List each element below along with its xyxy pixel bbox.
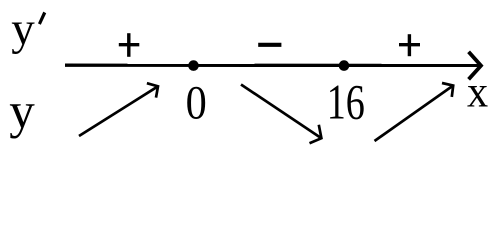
axis arrowhead (right end of x-axis) [469, 52, 481, 80]
decreasing arrow (middle interval, y falling) [241, 85, 321, 144]
axis line (x-axis / number line) [65, 64, 479, 68]
plus sign (left interval) [119, 33, 140, 57]
svg-text:x: x [467, 68, 488, 117]
svg-text:y: y [11, 3, 35, 55]
label 0 (below left dot) [186, 76, 207, 129]
svg-text:16: 16 [327, 75, 365, 130]
plus sign (right interval) [399, 34, 420, 56]
label y' (top left) [11, 3, 46, 55]
svg-text:y: y [9, 84, 35, 140]
label y (bottom left) [9, 84, 35, 140]
svg-text:0: 0 [186, 76, 207, 129]
point at 0 (filled dot) [188, 60, 199, 71]
minus sign (middle interval) [258, 43, 281, 47]
point at 16 (filled dot) [339, 60, 350, 71]
label x (right end) [467, 68, 488, 117]
increasing arrow (right interval, y rising) [375, 83, 454, 141]
label 16 (below right dot) [327, 75, 365, 130]
increasing arrow (left interval, y rising) [79, 83, 158, 136]
